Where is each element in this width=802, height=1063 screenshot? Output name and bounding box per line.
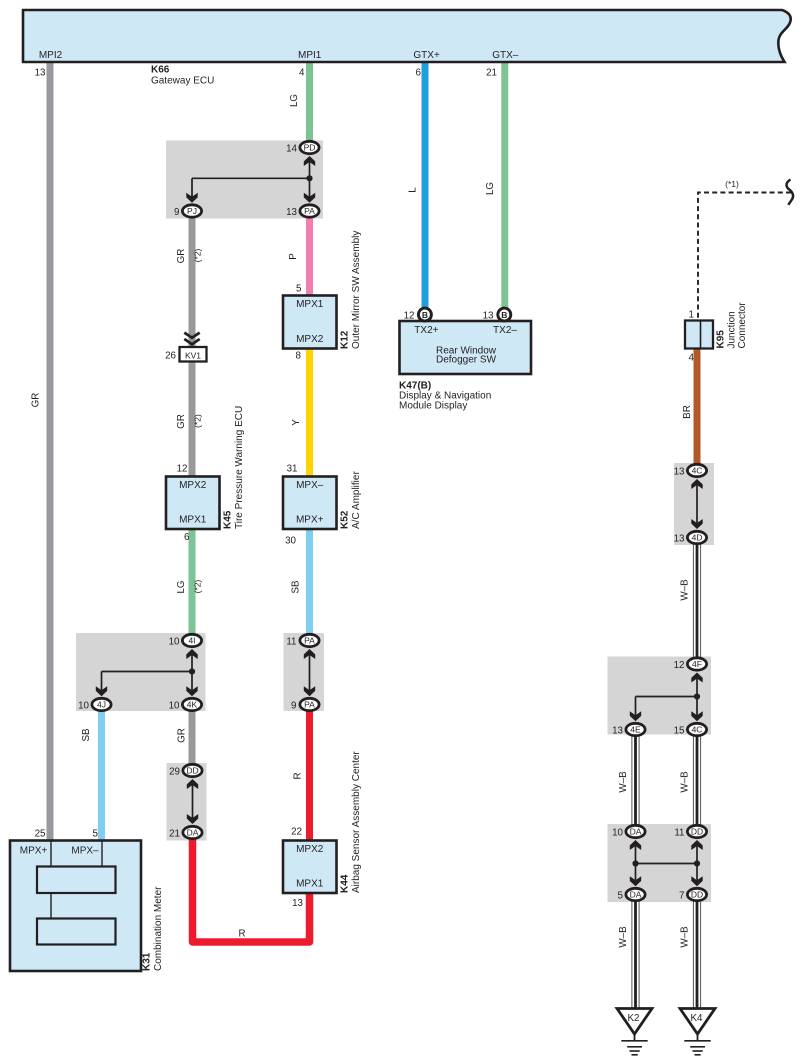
- svg-text:MPX–: MPX–: [71, 846, 99, 857]
- connector 4J: [78, 698, 111, 711]
- svg-text:12: 12: [674, 660, 685, 671]
- svg-text:K4: K4: [691, 1013, 704, 1024]
- connector shade block 4I/4J/4K: [76, 633, 206, 711]
- svg-text:(*1): (*1): [725, 179, 739, 189]
- arrow into 4C: [691, 479, 702, 489]
- svg-text:DD: DD: [186, 766, 198, 776]
- arrow into PA: [304, 193, 315, 203]
- continuation squiggle: [787, 180, 794, 205]
- svg-text:Tire Pressure Warning ECU: Tire Pressure Warning ECU: [234, 406, 245, 529]
- svg-text:10: 10: [612, 828, 623, 839]
- arrow into DD7: [691, 876, 702, 886]
- svg-text:PA: PA: [304, 636, 315, 646]
- svg-text:Gateway ECU: Gateway ECU: [151, 76, 214, 87]
- svg-text:B: B: [501, 310, 507, 320]
- svg-text:W–B: W–B: [680, 926, 691, 948]
- svg-text:GR: GR: [31, 393, 42, 408]
- svg-text:13: 13: [674, 467, 685, 478]
- arrow into PA9: [304, 686, 315, 696]
- svg-text:12: 12: [177, 464, 188, 475]
- svg-text:22: 22: [291, 827, 302, 838]
- wire SB from K52 pin30 to PA: [306, 528, 313, 635]
- svg-text:DA: DA: [187, 828, 199, 838]
- pin circle B 12: [404, 308, 432, 321]
- svg-text:8: 8: [296, 351, 302, 362]
- pin circle B 13: [483, 308, 511, 321]
- ground K4: [680, 1009, 715, 1055]
- arrow into DD: [187, 779, 198, 789]
- junction dot: [694, 693, 700, 699]
- svg-text:4: 4: [689, 353, 695, 364]
- arrow into 4I: [186, 649, 197, 659]
- wire GR from 4K to DD: [189, 711, 196, 766]
- link DD to DA: [192, 783, 194, 818]
- svg-text:13: 13: [483, 311, 494, 322]
- arrow into 4F: [691, 673, 702, 683]
- svg-text:A/C Amplifier: A/C Amplifier: [351, 471, 362, 529]
- svg-text:MPX+: MPX+: [20, 846, 48, 857]
- svg-text:W–B: W–B: [680, 771, 691, 793]
- svg-text:PJ: PJ: [187, 206, 197, 216]
- svg-text:Connector: Connector: [737, 302, 748, 349]
- connector PD: [286, 141, 319, 154]
- connector DA10: [612, 825, 645, 838]
- arrow into PJ: [186, 193, 197, 203]
- connector shade block DA/DD/DA/DD: [608, 824, 712, 902]
- svg-text:MPX1: MPX1: [296, 879, 324, 890]
- arrow into 4J: [96, 686, 107, 696]
- wire W-B from 4E to DA10: [632, 736, 639, 825]
- K95 Junction Connector box: [685, 302, 748, 364]
- wire W-B from DA5 to ground K2: [632, 901, 639, 1009]
- svg-text:4F: 4F: [692, 659, 702, 669]
- svg-text:B: B: [422, 310, 428, 320]
- svg-text:13: 13: [286, 207, 297, 218]
- svg-text:SB: SB: [81, 728, 92, 742]
- junction links DA/DD block: [636, 844, 698, 881]
- svg-text:26: 26: [165, 351, 176, 362]
- svg-text:6: 6: [416, 68, 422, 79]
- svg-text:TX2+: TX2+: [414, 325, 438, 336]
- svg-text:Junction: Junction: [727, 311, 738, 348]
- svg-text:(*2): (*2): [193, 579, 203, 593]
- svg-text:13: 13: [612, 726, 623, 737]
- wire GR from K66 pin13 to K31 pin25: [47, 62, 54, 841]
- connector 4C13: [674, 464, 707, 477]
- svg-text:K12: K12: [340, 330, 351, 349]
- svg-text:21: 21: [486, 68, 497, 79]
- svg-text:DD: DD: [691, 890, 703, 900]
- link PA11 to PA9: [309, 653, 311, 691]
- svg-text:Y: Y: [291, 419, 302, 426]
- svg-text:10: 10: [78, 701, 89, 712]
- connector DD7: [679, 888, 707, 901]
- arrow into DD11: [691, 840, 702, 850]
- svg-text:14: 14: [286, 144, 297, 155]
- arrow into DA5: [630, 876, 641, 886]
- K52 A/C Amplifier box: [283, 464, 362, 547]
- K12 Outer Mirror SW Assembly box: [283, 231, 362, 362]
- svg-text:5: 5: [618, 891, 624, 902]
- arrow into DA: [187, 814, 198, 824]
- svg-text:GTX+: GTX+: [413, 50, 440, 61]
- ground K2: [617, 1009, 652, 1055]
- svg-text:PD: PD: [304, 143, 316, 153]
- svg-text:11: 11: [286, 637, 296, 648]
- svg-text:MPX2: MPX2: [296, 844, 324, 855]
- svg-text:15: 15: [674, 726, 685, 737]
- wire W-B from 4D to 4F: [693, 544, 700, 658]
- svg-text:12: 12: [404, 311, 415, 322]
- svg-text:10: 10: [169, 637, 180, 648]
- connector PA: [286, 205, 319, 218]
- junction link PD to PJ/PA: [192, 161, 310, 198]
- svg-text:4E: 4E: [630, 725, 641, 735]
- svg-text:5: 5: [296, 284, 302, 295]
- svg-text:GTX–: GTX–: [492, 50, 519, 61]
- junction dot left: [632, 860, 638, 866]
- svg-text:GR: GR: [176, 414, 187, 429]
- svg-text:DA: DA: [630, 890, 642, 900]
- svg-text:MPI1: MPI1: [298, 50, 322, 61]
- connector DA5: [618, 888, 646, 901]
- connector DD29: [169, 764, 202, 777]
- svg-text:R: R: [238, 929, 245, 940]
- arrow into 4K: [186, 686, 197, 696]
- connector KV1: [165, 347, 206, 362]
- svg-text:KV1: KV1: [185, 350, 201, 360]
- connector shade block PJ/PD/PA: [166, 141, 323, 219]
- svg-text:MPI2: MPI2: [39, 50, 63, 61]
- svg-text:Combination Meter: Combination Meter: [153, 886, 164, 971]
- svg-text:W–B: W–B: [618, 771, 629, 793]
- svg-text:31: 31: [287, 464, 298, 475]
- svg-text:Defogger SW: Defogger SW: [436, 355, 497, 366]
- svg-text:(*2): (*2): [193, 248, 203, 262]
- svg-text:4D: 4D: [692, 533, 703, 543]
- K31 Combination Meter box: [10, 829, 164, 972]
- svg-text:Module Display: Module Display: [399, 401, 467, 412]
- svg-text:DA: DA: [630, 827, 642, 837]
- svg-text:GR: GR: [176, 249, 187, 264]
- arrow into DA10: [630, 840, 641, 850]
- wire GR from KV1 to K45 pin12: [189, 361, 196, 478]
- svg-text:29: 29: [169, 767, 180, 778]
- svg-text:4C: 4C: [692, 466, 703, 476]
- K66 Gateway ECU box: [23, 10, 791, 62]
- svg-text:K31: K31: [142, 952, 153, 971]
- svg-text:25: 25: [35, 829, 46, 840]
- connector DA21: [169, 826, 202, 839]
- svg-text:13: 13: [674, 534, 685, 545]
- svg-text:LG: LG: [176, 580, 187, 593]
- connector PA11: [286, 634, 319, 647]
- svg-text:K52: K52: [340, 510, 351, 529]
- connector PA9: [291, 698, 319, 711]
- wire LG from K45 pin6 to 4I: [189, 528, 196, 635]
- wire R from DA21 to K44 pin13: [193, 838, 310, 942]
- svg-text:10: 10: [169, 701, 180, 712]
- svg-text:GR: GR: [177, 728, 188, 743]
- connector shade block 4F/4E/4C: [608, 657, 712, 735]
- connector PJ: [174, 205, 202, 218]
- svg-text:21: 21: [169, 829, 180, 840]
- svg-text:4C: 4C: [692, 725, 703, 735]
- svg-text:6: 6: [184, 532, 190, 543]
- svg-text:DD: DD: [691, 827, 703, 837]
- arrow into PD: [304, 156, 315, 166]
- svg-text:K2: K2: [628, 1013, 640, 1024]
- svg-text:MPX2: MPX2: [179, 480, 207, 491]
- svg-text:4: 4: [299, 68, 305, 79]
- K45 Tire Pressure Warning ECU box: [166, 406, 245, 543]
- svg-text:7: 7: [679, 891, 684, 902]
- svg-text:MPX2: MPX2: [296, 334, 324, 345]
- connector shade block PA/PA: [284, 633, 325, 711]
- arrow into 4E: [630, 711, 641, 721]
- svg-text:(*2): (*2): [193, 414, 203, 428]
- svg-text:K95: K95: [716, 330, 727, 349]
- svg-text:PA: PA: [304, 700, 315, 710]
- svg-text:13: 13: [35, 68, 46, 79]
- svg-text:4I: 4I: [188, 636, 195, 646]
- svg-text:W–B: W–B: [618, 926, 629, 948]
- link 4C to 4D: [696, 483, 698, 523]
- svg-text:4J: 4J: [97, 700, 106, 710]
- connector 4I: [169, 634, 202, 647]
- svg-text:30: 30: [285, 536, 296, 547]
- svg-text:11: 11: [674, 828, 684, 839]
- svg-text:P: P: [288, 253, 299, 260]
- svg-text:L: L: [408, 187, 419, 193]
- connector DD11: [674, 825, 706, 838]
- svg-text:K45: K45: [223, 510, 234, 529]
- connector 4F: [674, 658, 707, 671]
- connector 4C15: [674, 723, 707, 736]
- junction dot right: [694, 860, 700, 866]
- svg-text:4K: 4K: [187, 700, 198, 710]
- inline chevrons above KV1: [184, 333, 199, 345]
- connector shade block 4C/4D: [674, 463, 714, 545]
- svg-text:R: R: [293, 772, 304, 779]
- svg-text:5: 5: [93, 829, 99, 840]
- wire R from PA9 to K44 pin22: [306, 711, 313, 843]
- svg-text:PA: PA: [304, 206, 315, 216]
- wire LG from K66 pin21 to K47 pin13: [501, 62, 508, 309]
- wire Y from K12 pin8 to K52 pin31: [306, 348, 313, 478]
- svg-text:W–B: W–B: [680, 579, 691, 601]
- svg-text:K66: K66: [151, 65, 170, 76]
- connector 4D13: [674, 531, 707, 544]
- svg-text:TX2–: TX2–: [493, 325, 517, 336]
- arrow into PA11: [304, 649, 315, 659]
- arrow into 4C15: [691, 711, 702, 721]
- wire W-B from 4C15 to DD11: [693, 736, 700, 825]
- wire LG from K66 pin4 to PD: [306, 62, 313, 143]
- junction link 4I to 4J/4K: [102, 653, 193, 691]
- svg-text:MPX–: MPX–: [296, 480, 324, 491]
- svg-text:9: 9: [174, 207, 179, 218]
- svg-text:SB: SB: [291, 580, 302, 594]
- svg-text:K44: K44: [340, 874, 351, 893]
- svg-text:1: 1: [689, 310, 694, 321]
- svg-text:MPX1: MPX1: [296, 299, 324, 310]
- svg-text:Outer Mirror SW Assembly: Outer Mirror SW Assembly: [351, 231, 362, 349]
- K47(B) Rear Window Defogger SW box: [400, 321, 532, 374]
- svg-text:LG: LG: [289, 94, 300, 107]
- connector shade block DD/DA: [167, 763, 207, 841]
- junction dot: [306, 175, 312, 181]
- wire BR from K95 pin4 to 4C: [694, 348, 701, 464]
- arrow into 4D: [691, 519, 702, 529]
- svg-text:MPX1: MPX1: [179, 515, 207, 526]
- connector 4E: [612, 723, 645, 736]
- svg-text:13: 13: [292, 898, 303, 909]
- wire GR from PJ to KV1: [189, 217, 196, 348]
- svg-text:MPX+: MPX+: [296, 515, 324, 526]
- wire P from PA to K12 pin5: [306, 217, 313, 296]
- K44 Airbag Sensor Assembly Center box: [283, 751, 362, 909]
- svg-text:9: 9: [291, 701, 296, 712]
- svg-text:Airbag Sensor Assembly Center: Airbag Sensor Assembly Center: [351, 751, 362, 893]
- connector 4K: [169, 698, 202, 711]
- wire W-B from DD7 to ground K4: [693, 901, 700, 1009]
- wire dashed (*1) to K95 pin1: [698, 193, 791, 321]
- svg-text:LG: LG: [485, 182, 496, 195]
- junction link 4F to 4E/4C: [636, 677, 698, 716]
- wire SB from 4J to K31 pin5: [98, 711, 105, 842]
- junction dot: [189, 668, 195, 674]
- wire L from K66 pin6 to K47 pin12: [422, 62, 429, 309]
- svg-text:BR: BR: [682, 405, 693, 419]
